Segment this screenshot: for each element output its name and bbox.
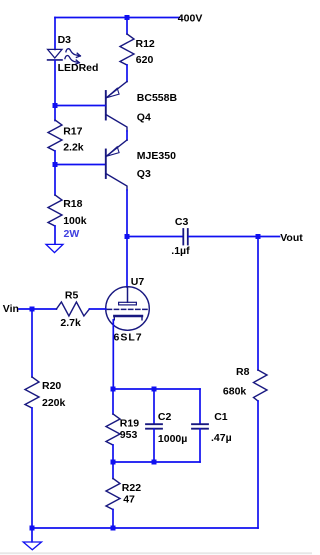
label U7 <box>131 276 145 288</box>
junction bottom rail ground <box>30 526 35 531</box>
label 47 <box>123 494 135 506</box>
transistor Q3 MJE350 <box>106 140 127 190</box>
label R22 <box>122 482 141 494</box>
svg-text:2.2k: 2.2k <box>63 142 84 154</box>
svg-text:Q4: Q4 <box>137 111 151 123</box>
junction bottom rail R22 <box>111 526 116 531</box>
svg-text:Vout: Vout <box>280 232 303 244</box>
label 620 <box>136 54 154 66</box>
label C2 <box>158 411 172 423</box>
wire R17 to R18 <box>54 151 56 195</box>
wire Q3 base <box>55 164 105 166</box>
wire R20 column top <box>31 309 33 377</box>
junction Vin <box>30 307 35 312</box>
svg-text:400V: 400V <box>178 13 203 25</box>
junction RC rail top C2 <box>152 387 157 392</box>
svg-text:R5: R5 <box>65 289 79 301</box>
label .1uf <box>171 245 190 257</box>
wire bottom rail <box>32 527 258 529</box>
resistor R19 <box>106 389 120 462</box>
svg-text:R18: R18 <box>63 198 82 210</box>
wire Q3 collector down <box>126 190 128 237</box>
label 2W <box>64 228 80 240</box>
label R17 <box>63 125 82 137</box>
label R5 <box>65 289 79 301</box>
svg-text:Vin: Vin <box>3 303 19 315</box>
label R12 <box>136 38 155 50</box>
transistor Q4 BC558B <box>106 82 127 132</box>
resistor R22 <box>106 462 120 528</box>
junction Vout <box>256 234 261 239</box>
svg-text:.1µf: .1µf <box>171 245 190 257</box>
svg-text:220k: 220k <box>42 397 66 409</box>
wire C3 left <box>127 236 182 238</box>
capacitor C1 <box>192 389 208 462</box>
resistor R8 <box>254 237 268 529</box>
label C1 <box>214 411 228 423</box>
svg-text:6SL7: 6SL7 <box>114 332 143 344</box>
resistor R20 <box>25 377 39 408</box>
tube U7 6SL7 <box>106 287 150 331</box>
label 680k <box>223 385 247 397</box>
wire top rail 400V <box>55 17 180 19</box>
svg-text:R20: R20 <box>42 380 61 392</box>
wire D3 anode lead <box>54 18 56 50</box>
svg-text:Q3: Q3 <box>137 168 151 180</box>
svg-text:R12: R12 <box>136 38 155 50</box>
svg-text:C2: C2 <box>158 411 172 423</box>
label 2.7k <box>60 317 81 329</box>
svg-text:R17: R17 <box>63 125 82 137</box>
svg-text:100k: 100k <box>63 215 87 227</box>
svg-text:R19: R19 <box>120 418 139 430</box>
wire C3 right to Vout <box>189 236 258 238</box>
junction C3 left <box>125 234 130 239</box>
label D3 <box>58 34 72 46</box>
resistor R17 <box>48 120 62 151</box>
resistor R18 <box>48 195 62 244</box>
svg-text:680k: 680k <box>223 385 247 397</box>
svg-text:C3: C3 <box>175 216 189 228</box>
resistor R12 <box>120 18 134 82</box>
ground at R18 <box>46 244 63 252</box>
label Q4 <box>137 111 151 123</box>
junction top rail R12 <box>125 15 130 20</box>
wire R5 to grid <box>89 308 105 310</box>
label MJE350 <box>137 150 176 162</box>
wire Q4 base <box>55 105 105 107</box>
junction RC rail bottom C2 <box>152 460 157 465</box>
junction R17 bottom <box>53 162 58 167</box>
wire cathode lead <box>112 320 114 389</box>
label R18 <box>63 198 82 210</box>
junction RC rail top left <box>111 387 116 392</box>
label BC558B <box>137 92 178 104</box>
wire RC bottom rail <box>113 461 200 463</box>
node 400V label <box>178 13 203 25</box>
label 2.2k <box>63 142 84 154</box>
capacitor C2 <box>146 389 162 462</box>
svg-text:R8: R8 <box>236 366 250 378</box>
label R19 <box>120 418 139 430</box>
svg-text:C1: C1 <box>214 411 228 423</box>
svg-text:MJE350: MJE350 <box>137 150 176 162</box>
svg-text:1000µ: 1000µ <box>158 433 187 445</box>
svg-text:U7: U7 <box>131 276 145 288</box>
label 220k <box>42 397 66 409</box>
capacitor C3 <box>183 229 188 245</box>
svg-text:.47µ: .47µ <box>211 432 232 444</box>
wire Q4 collector to Q3 emitter <box>126 131 128 140</box>
node Vout label <box>280 232 303 244</box>
label LEDRed <box>58 62 99 74</box>
resistor R5 <box>56 302 89 316</box>
label C3 <box>175 216 189 228</box>
window edge line bottom <box>0 552 312 554</box>
wire RC top rail <box>113 388 200 390</box>
junction RC rail bottom left <box>111 460 116 465</box>
label Q3 <box>137 168 151 180</box>
diode D3 LED symbol <box>48 49 81 64</box>
svg-text:620: 620 <box>136 54 154 66</box>
label R8 <box>236 366 250 378</box>
label 6SL7 <box>114 332 143 344</box>
label R20 <box>42 380 61 392</box>
wire Vout stub <box>258 236 280 238</box>
svg-text:953: 953 <box>120 429 138 441</box>
wire R20 column bottom <box>31 408 33 528</box>
svg-text:D3: D3 <box>58 34 72 46</box>
svg-text:R22: R22 <box>122 482 141 494</box>
svg-text:BC558B: BC558B <box>137 92 178 104</box>
svg-text:2W: 2W <box>64 228 80 240</box>
junction R17 top <box>53 103 58 108</box>
wire plate column <box>126 237 128 288</box>
wire D3 cathode to R17 <box>54 61 56 121</box>
label 100k <box>63 215 87 227</box>
label 953 <box>120 429 138 441</box>
node Vin label <box>3 303 19 315</box>
svg-text:47: 47 <box>123 494 135 506</box>
label 1000u <box>158 433 187 445</box>
svg-text:2.7k: 2.7k <box>60 317 81 329</box>
ground bottom <box>23 528 41 550</box>
wire Vin lead <box>19 308 56 310</box>
svg-text:LEDRed: LEDRed <box>58 62 99 74</box>
label .47u <box>211 432 232 444</box>
